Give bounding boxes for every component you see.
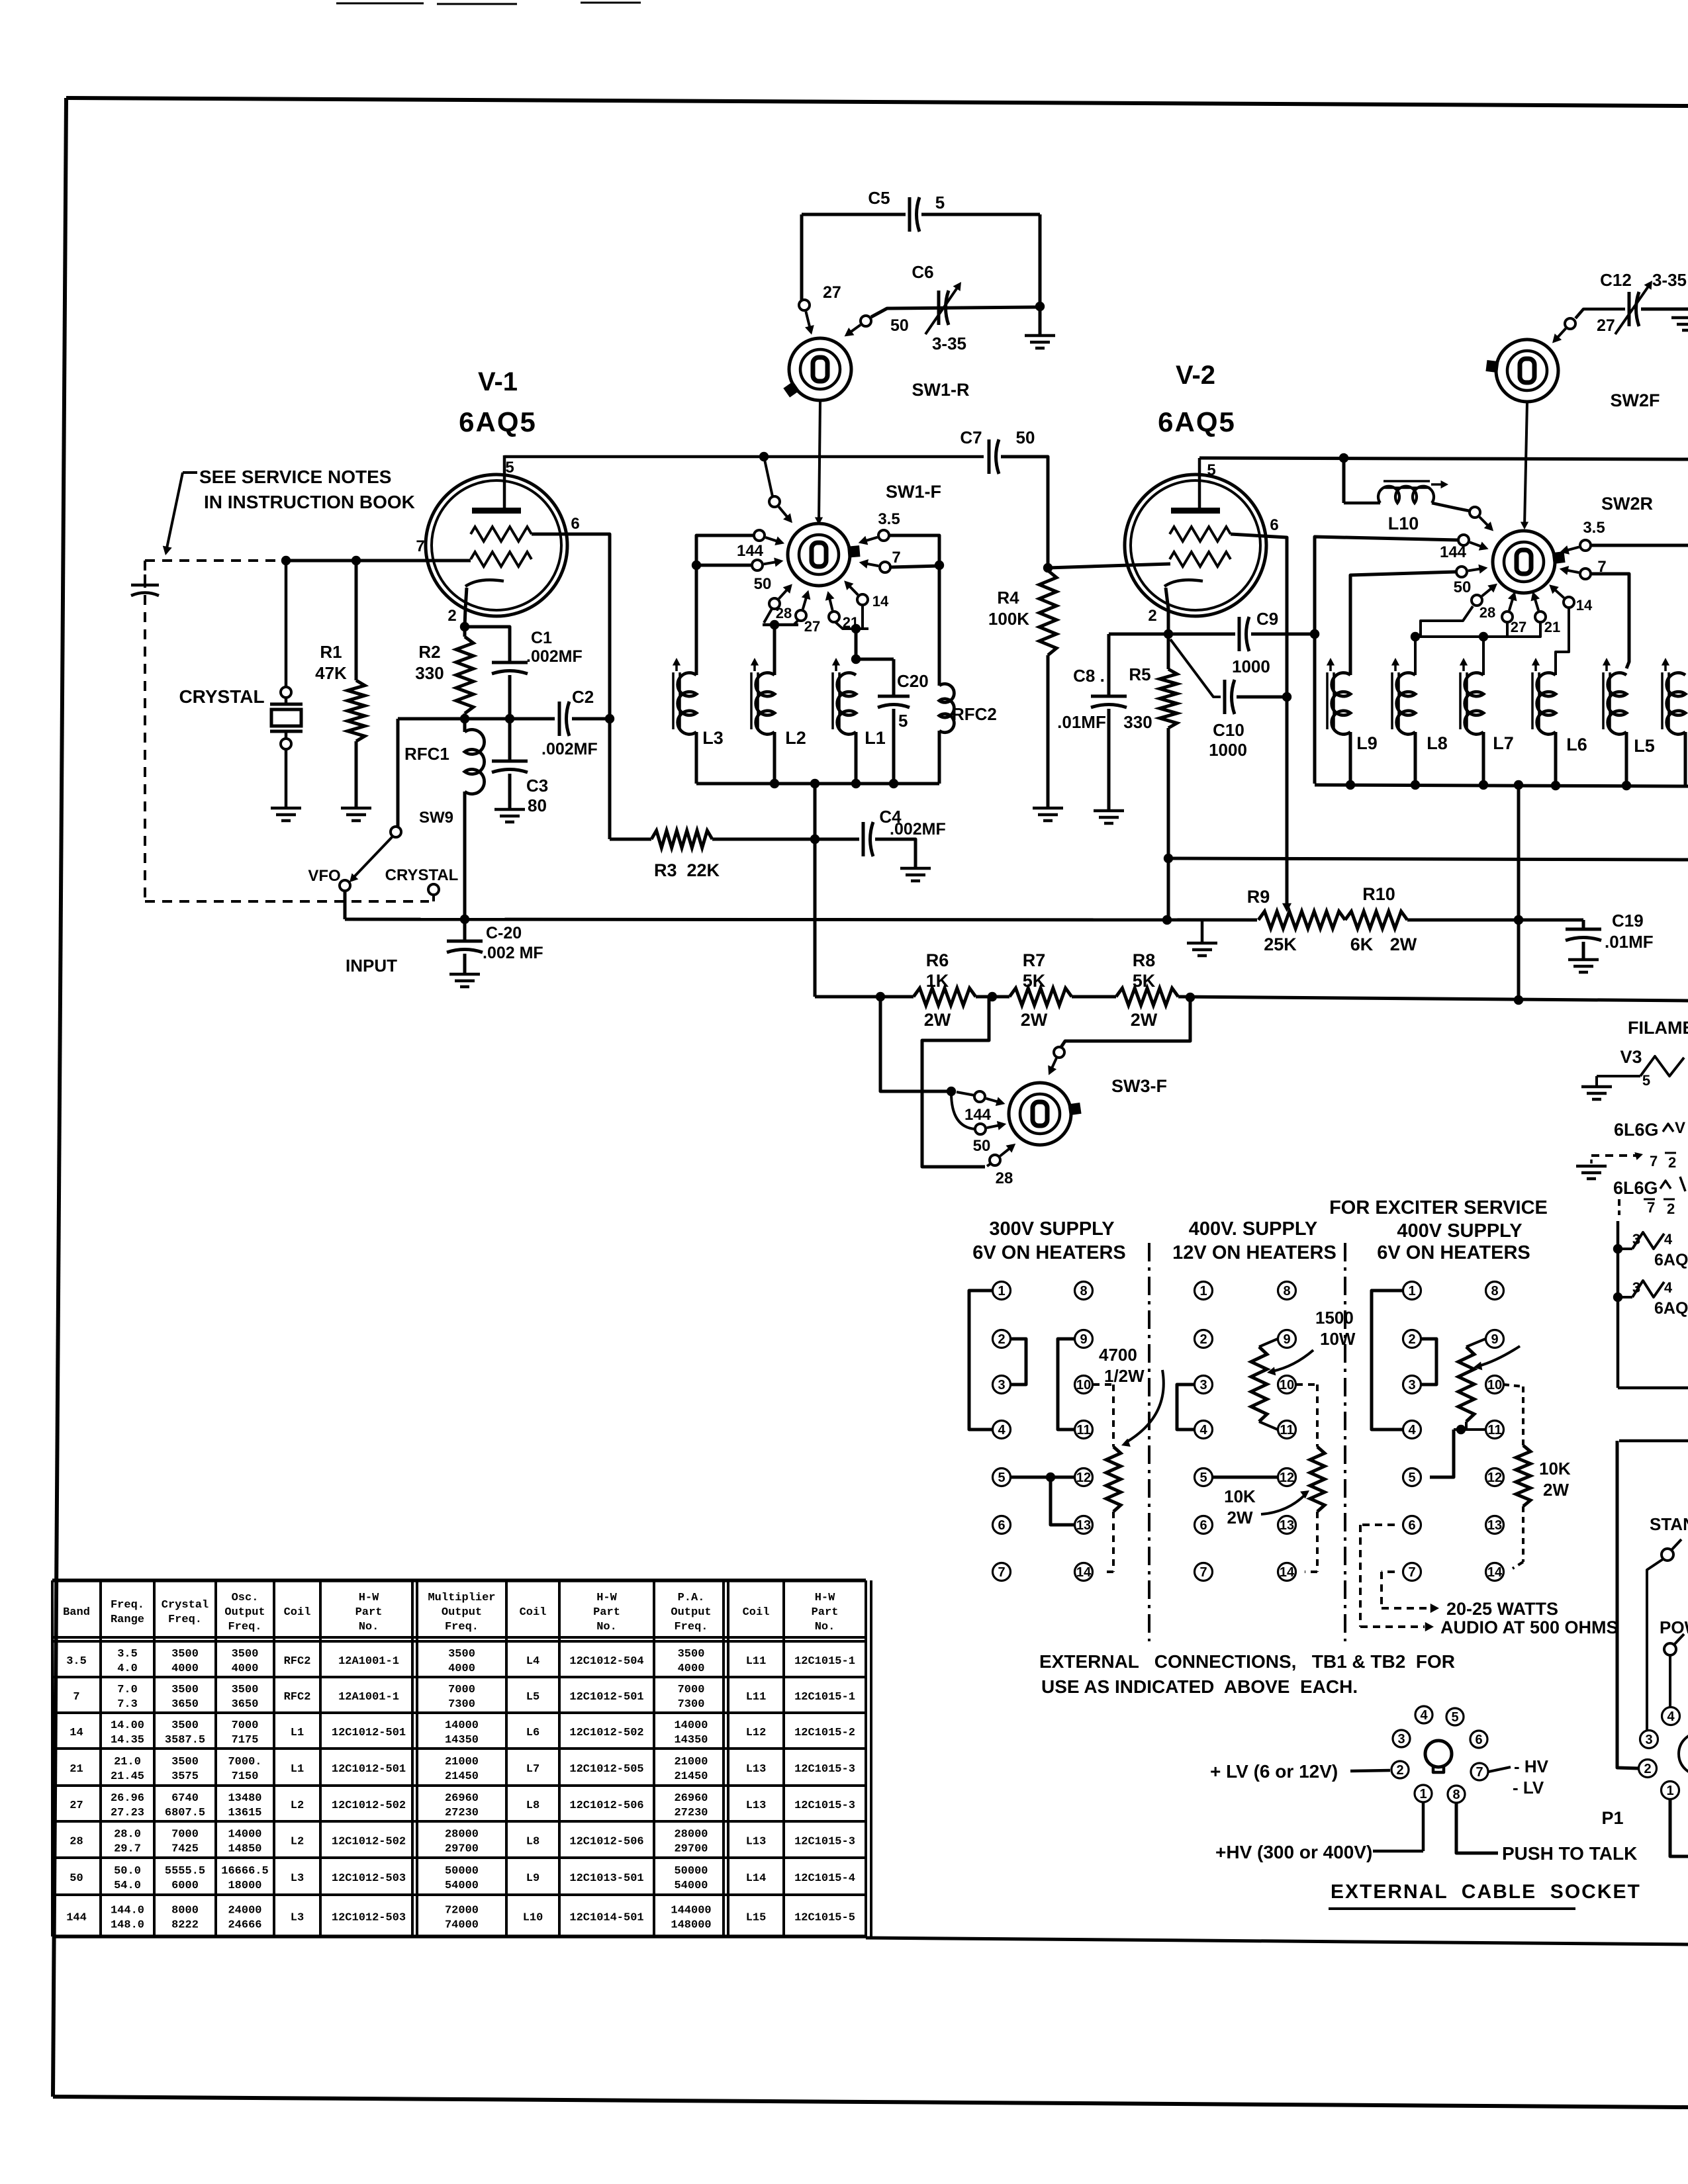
svg-text:21450: 21450 — [674, 1770, 708, 1783]
heater 6AQ5 b — [1618, 1279, 1673, 1297]
svg-text:12C1015-5: 12C1015-5 — [794, 1912, 855, 1925]
svg-text:12: 12 — [1487, 1471, 1502, 1485]
resistor R5 — [1160, 634, 1177, 920]
svg-text:STANDBY: STANDBY — [1650, 1514, 1688, 1534]
inductor RFC1 — [465, 719, 485, 919]
svg-text:RFC2: RFC2 — [284, 1655, 311, 1668]
svg-text:1K: 1K — [926, 971, 949, 991]
svg-text:11: 11 — [1076, 1423, 1090, 1437]
label 14 SW1-F — [872, 593, 889, 610]
svg-text:6AQ5: 6AQ5 — [459, 406, 537, 437]
label C2 value — [541, 740, 598, 758]
svg-text:2W: 2W — [1227, 1508, 1253, 1527]
resistor R9 pot — [1258, 911, 1345, 929]
svg-text:FOR EXCITER SERVICE: FOR EXCITER SERVICE — [1329, 1197, 1548, 1218]
dashed resistor TB2 — [1310, 1447, 1325, 1512]
svg-text:3650: 3650 — [232, 1698, 259, 1711]
socket pin 8 — [1448, 1786, 1465, 1803]
inductor L2 — [756, 673, 774, 784]
svg-text:3: 3 — [1632, 1231, 1640, 1248]
arrow contact 21 SW1-F — [825, 591, 835, 610]
svg-text:28000: 28000 — [674, 1829, 708, 1841]
label 21 SW2R — [1544, 619, 1560, 635]
label L5 — [1634, 736, 1655, 756]
svg-text:148000: 148000 — [671, 1919, 711, 1932]
node contact feed SW1-F — [769, 496, 780, 507]
label R6 1K — [924, 950, 951, 1030]
svg-text:8000: 8000 — [171, 1905, 199, 1917]
terminal TB2-400V pin 8 — [1278, 1282, 1296, 1300]
label L6 — [1566, 735, 1587, 754]
svg-text:EXTERNAL CONNECTIONS, TB1: EXTERNAL CONNECTIONS, TB1 & TB2 FOR — [1039, 1651, 1455, 1672]
svg-text:400V SUPPLY: 400V SUPPLY — [1397, 1220, 1522, 1242]
capacitor C5 — [802, 197, 1040, 232]
label C19 value — [1605, 932, 1654, 952]
node contact 144 SW2R — [1458, 535, 1469, 545]
svg-text:27: 27 — [70, 1799, 83, 1812]
node contact top SW3-F — [1054, 1047, 1064, 1058]
svg-text:SW9: SW9 — [419, 809, 453, 827]
svg-text:2: 2 — [1667, 1201, 1675, 1217]
wire rotor link SW1 — [815, 400, 823, 525]
svg-text:Coil: Coil — [743, 1606, 770, 1619]
label 4700 1/2W — [1099, 1345, 1145, 1386]
svg-text:50: 50 — [973, 1137, 991, 1155]
label SW2F — [1610, 390, 1660, 410]
svg-text:L9: L9 — [1356, 733, 1378, 753]
label 6AQ5 V1 — [459, 406, 537, 437]
wire 28 SW2R to L8 — [1421, 606, 1473, 637]
svg-text:C6: C6 — [912, 262, 933, 282]
svg-text:50: 50 — [754, 575, 772, 593]
rotary switch SW3-F — [1009, 1083, 1080, 1145]
svg-text:1000: 1000 — [1209, 740, 1247, 760]
svg-text:21450: 21450 — [445, 1770, 479, 1783]
svg-text:25K: 25K — [1264, 934, 1297, 954]
node contact 27 SW2F — [1565, 316, 1615, 335]
svg-text:11: 11 — [1487, 1423, 1501, 1437]
svg-text:6AQ5: 6AQ5 — [1654, 1251, 1688, 1269]
svg-text:L10: L10 — [523, 1912, 543, 1925]
svg-text:24666: 24666 — [228, 1919, 261, 1932]
svg-text:RFC1: RFC1 — [404, 744, 449, 764]
svg-text:RFC2: RFC2 — [284, 1691, 311, 1704]
node C9 bus — [1164, 629, 1319, 639]
svg-text:2: 2 — [1148, 607, 1156, 625]
label R1 47K — [315, 642, 347, 683]
svg-text:R9: R9 — [1247, 887, 1270, 907]
arrow contact 27 SW1-F — [802, 590, 811, 610]
wire pin7 V1 — [281, 556, 471, 565]
svg-text:9: 9 — [1283, 1332, 1290, 1347]
svg-text:C3: C3 — [526, 776, 548, 796]
svg-text:7: 7 — [1199, 1565, 1207, 1580]
svg-text:3-35: 3-35 — [1652, 270, 1687, 290]
label 1500 10W — [1315, 1308, 1356, 1349]
dashed TB1 10-14 — [1093, 1385, 1113, 1447]
svg-text:1: 1 — [1199, 1284, 1207, 1298]
svg-text:+HV (300 or 400V): +HV (300 or 400V) — [1215, 1842, 1372, 1862]
svg-text:4: 4 — [1420, 1708, 1428, 1723]
label C5 value — [935, 193, 945, 212]
svg-text:50.0: 50.0 — [114, 1865, 141, 1878]
node L1 top junction — [851, 655, 894, 664]
svg-text:9: 9 — [1080, 1332, 1087, 1347]
wire TB2 5-12 — [1213, 1476, 1278, 1479]
svg-text:74000: 74000 — [445, 1919, 479, 1932]
wire 6AQ5 heater chain — [1613, 1221, 1622, 1388]
svg-text:6: 6 — [1199, 1518, 1207, 1533]
svg-text:INPUT: INPUT — [346, 956, 397, 976]
label C5 — [868, 188, 890, 208]
svg-text:6V ON HEATERS: 6V ON HEATERS — [1377, 1242, 1530, 1263]
label C4 value — [890, 820, 946, 839]
svg-text:V-2: V-2 — [1176, 361, 1215, 390]
svg-text:R6: R6 — [926, 950, 949, 970]
wire 3.5 to RFC2 — [889, 535, 944, 686]
connector P1 pin3 — [1640, 1731, 1658, 1749]
node contact 14 SW2R — [1564, 597, 1574, 608]
tube V1 — [426, 475, 567, 616]
svg-text:6AQ5: 6AQ5 — [1158, 406, 1236, 437]
svg-text:14000: 14000 — [445, 1719, 479, 1732]
svg-text:Multiplier: Multiplier — [428, 1592, 495, 1604]
svg-text:L11: L11 — [746, 1655, 767, 1668]
svg-text:12C1012-501: 12C1012-501 — [332, 1763, 406, 1776]
svg-text:R2: R2 — [418, 642, 440, 662]
svg-text:50: 50 — [70, 1872, 83, 1885]
label C2 — [572, 687, 594, 707]
underline socket label — [1329, 1907, 1575, 1910]
svg-text:L7: L7 — [1493, 733, 1514, 753]
svg-text:2W: 2W — [1131, 1010, 1158, 1030]
wire pin7 to HV — [1489, 1767, 1511, 1772]
svg-text:12C1014-501: 12C1014-501 — [569, 1912, 643, 1925]
svg-text:L7: L7 — [526, 1763, 539, 1776]
arrow 144 SW3-F — [986, 1097, 1006, 1107]
inductor L8 — [1397, 673, 1415, 785]
svg-text:26960: 26960 — [445, 1792, 479, 1805]
pin 2 label V1 — [447, 607, 456, 625]
svg-text:1500: 1500 — [1315, 1308, 1354, 1328]
svg-text:50: 50 — [1454, 578, 1472, 596]
label 6AQ5 a — [1654, 1251, 1688, 1269]
terminal TB-EXC pin 3 — [1403, 1376, 1421, 1394]
svg-text:4700: 4700 — [1099, 1345, 1137, 1365]
svg-text:26.96: 26.96 — [111, 1792, 144, 1805]
pin 2 label V2 — [1148, 607, 1156, 625]
terminal TB-EXC pin 13 — [1486, 1516, 1504, 1534]
svg-text:6807.5: 6807.5 — [165, 1807, 205, 1819]
label POWER — [1660, 1617, 1688, 1637]
svg-text:C1: C1 — [531, 629, 552, 647]
svg-text:50: 50 — [1016, 428, 1035, 447]
svg-text:.002 MF: .002 MF — [483, 944, 543, 962]
svg-text:1: 1 — [998, 1284, 1005, 1298]
arrow contact 50 SW2R — [1468, 565, 1488, 574]
svg-text:.002MF: .002MF — [890, 820, 946, 839]
svg-text:148.0: 148.0 — [111, 1919, 144, 1932]
label SW3-F — [1111, 1076, 1167, 1096]
inductor RFC2 — [939, 684, 954, 784]
label 28 SW2R — [1479, 604, 1495, 621]
dashed capacitor on box edge — [131, 574, 159, 606]
svg-text:Crystal: Crystal — [162, 1599, 209, 1612]
svg-text:7: 7 — [892, 549, 900, 567]
wire coil bus to R6 bus — [810, 784, 820, 997]
dashed TB2 10-14 — [1296, 1385, 1317, 1447]
terminal TB2-400V pin 5 — [1195, 1469, 1213, 1486]
ground R4 — [1033, 808, 1063, 821]
terminal TB-EXC pin 1 — [1403, 1282, 1421, 1300]
svg-text:27: 27 — [823, 283, 841, 302]
svg-text:L1: L1 — [291, 1763, 304, 1776]
svg-text:8: 8 — [1491, 1284, 1498, 1298]
terminal TB2-400V pin 3 — [1195, 1376, 1213, 1394]
dashed resistor TBX — [1516, 1445, 1530, 1506]
label R2 330 — [415, 642, 444, 683]
svg-text:7: 7 — [1408, 1565, 1415, 1580]
resistor R1 — [348, 561, 365, 808]
svg-text:5: 5 — [1642, 1072, 1650, 1089]
slug L10 — [1383, 480, 1448, 488]
wire 144 to L3 — [692, 535, 754, 675]
svg-text:14: 14 — [70, 1727, 83, 1739]
label 6L6G 2 — [1613, 1177, 1685, 1198]
svg-text:3587.5: 3587.5 — [165, 1734, 205, 1747]
svg-text:47K: 47K — [315, 663, 347, 683]
svg-text:5: 5 — [935, 193, 945, 212]
wire cathode diag to C10 — [1170, 639, 1221, 697]
dashed TB2 to 14 — [1305, 1512, 1317, 1572]
svg-text:7150: 7150 — [232, 1770, 259, 1783]
svg-text:3.5: 3.5 — [878, 510, 900, 528]
label 3.5 SW1-F — [878, 510, 900, 528]
svg-text:1000: 1000 — [1232, 657, 1270, 676]
node contact 27 SW1-R — [799, 283, 841, 310]
ground input bus — [1187, 920, 1217, 956]
wire standby to pin3 — [1647, 1559, 1663, 1730]
svg-text:4: 4 — [1408, 1423, 1416, 1437]
label C6 — [912, 262, 933, 282]
svg-text:3-35: 3-35 — [932, 334, 966, 353]
svg-text:10: 10 — [1487, 1378, 1502, 1392]
wire R6 junction to SW3 contacts — [880, 997, 956, 1096]
ground R1 — [341, 808, 371, 821]
svg-text:6000: 6000 — [171, 1880, 199, 1892]
ground C4 — [900, 868, 931, 881]
connector P1 pin4 — [1662, 1707, 1680, 1725]
svg-text:Part: Part — [812, 1606, 839, 1619]
svg-text:L9: L9 — [526, 1872, 539, 1885]
label R10 — [1362, 884, 1395, 904]
svg-text:27230: 27230 — [445, 1807, 479, 1819]
label 28 SW3-F — [996, 1169, 1013, 1187]
label L9 — [1356, 733, 1378, 753]
svg-text:14000: 14000 — [674, 1719, 708, 1732]
svg-text:3: 3 — [1645, 1733, 1652, 1747]
node contact 14 SW1-F — [857, 594, 868, 605]
label 28 SW1-F — [776, 605, 792, 621]
svg-text:V: V — [1675, 1119, 1685, 1137]
label V3 pin5 — [1642, 1072, 1650, 1089]
socket pin 4 — [1415, 1706, 1432, 1723]
wire 7 SW2R to L5 — [1591, 574, 1629, 668]
label C9 value — [1232, 657, 1270, 676]
arrow contact 27 SW2R — [1508, 592, 1517, 611]
label R5 — [1129, 664, 1150, 684]
wire pin8 to push-to-talk — [1456, 1803, 1498, 1853]
terminal TB2-400V pin 1 — [1195, 1282, 1213, 1300]
wire pin6 V2 down — [1231, 534, 1291, 905]
svg-text:C2: C2 — [572, 687, 594, 707]
label VFO — [308, 867, 340, 885]
svg-text:5: 5 — [998, 1471, 1005, 1485]
label 300V SUPPLY — [989, 1218, 1114, 1240]
svg-text:10K: 10K — [1539, 1459, 1571, 1479]
svg-text:9: 9 — [1491, 1332, 1498, 1347]
capacitor C19 — [1566, 920, 1601, 960]
label R5 value — [1123, 712, 1152, 732]
svg-text:144: 144 — [964, 1106, 992, 1124]
svg-text:12C1012-502: 12C1012-502 — [332, 1836, 406, 1848]
svg-text:Band: Band — [63, 1606, 90, 1619]
label C6 value — [932, 334, 966, 353]
svg-text:4: 4 — [1664, 1279, 1673, 1296]
wire cathode V1 — [465, 588, 467, 627]
svg-text:C12: C12 — [1600, 270, 1632, 290]
wire 7 to RFC2 — [890, 566, 939, 567]
terminal TB1-300V pin 8 — [1075, 1282, 1093, 1300]
svg-text:12A1001-1: 12A1001-1 — [338, 1691, 399, 1704]
svg-text:L12: L12 — [746, 1727, 767, 1739]
svg-text:5K: 5K — [1023, 971, 1046, 991]
ground C12 — [1671, 318, 1688, 330]
terminal TB-EXC pin 11 — [1486, 1421, 1504, 1439]
svg-text:14: 14 — [872, 593, 889, 610]
resistor TB2 9-11 — [1251, 1339, 1278, 1430]
svg-text:2: 2 — [998, 1332, 1005, 1347]
wire coil-bus drop right — [1514, 785, 1523, 1000]
label R3 22K — [654, 860, 720, 880]
svg-text:6K: 6K — [1350, 934, 1374, 954]
label L8 — [1427, 733, 1448, 753]
svg-text:5555.5: 5555.5 — [165, 1865, 205, 1878]
svg-text:7: 7 — [416, 537, 424, 555]
label C9 — [1256, 609, 1278, 629]
svg-text:27: 27 — [1597, 316, 1615, 335]
label 10K 2W TB2 — [1224, 1486, 1256, 1527]
svg-text:12V ON HEATERS: 12V ON HEATERS — [1172, 1242, 1336, 1263]
slug L2 — [751, 658, 759, 729]
resistor TBX 9-11 — [1454, 1339, 1485, 1434]
label 144 SW2R — [1440, 543, 1467, 561]
svg-text:28: 28 — [996, 1169, 1013, 1187]
terminal TB-EXC pin 14 — [1486, 1563, 1504, 1581]
wire plate stem V1 — [503, 455, 506, 510]
wire 50 SW2R to L9 — [1350, 572, 1456, 675]
label 144 SW3-F — [964, 1106, 992, 1124]
svg-text:2W: 2W — [1543, 1480, 1569, 1500]
label R9 — [1247, 887, 1270, 907]
svg-text:12: 12 — [1280, 1471, 1294, 1485]
svg-text:13: 13 — [1280, 1518, 1294, 1533]
svg-text:4000: 4000 — [448, 1662, 475, 1675]
svg-text:3500: 3500 — [171, 1756, 199, 1768]
svg-text:8: 8 — [1452, 1788, 1460, 1802]
svg-text:14: 14 — [1280, 1565, 1295, 1580]
wire R7-R8 — [1072, 995, 1116, 999]
inductor L3 — [678, 673, 696, 784]
svg-text:4: 4 — [998, 1423, 1006, 1437]
wire TBX 5 up — [1430, 1430, 1454, 1477]
label C8 value — [1057, 712, 1106, 732]
node contact 50 SW1-R — [861, 316, 871, 326]
svg-text:L3: L3 — [291, 1872, 304, 1885]
label L2 — [785, 728, 806, 748]
wire LV to pin2 — [1350, 1770, 1390, 1771]
slug L1 — [832, 658, 840, 729]
dashed service-notes box — [145, 561, 429, 901]
node contact 28 SW1-F — [769, 598, 780, 609]
pin 5 label V1 — [505, 459, 514, 477]
svg-text:No.: No. — [596, 1621, 617, 1633]
wire 50 to L3 — [696, 564, 752, 567]
svg-text:3: 3 — [998, 1378, 1005, 1392]
terminal TB2-400V pin 2 — [1195, 1330, 1213, 1348]
node contact 21 SW2R — [1535, 612, 1546, 622]
wire cathode V2 — [1166, 588, 1168, 634]
terminal TB-EXC pin 5 — [1403, 1469, 1421, 1486]
label 144 SW1-F — [737, 542, 764, 560]
wire pin1 to +HV — [1373, 1803, 1423, 1851]
table row 7 — [73, 1684, 855, 1711]
svg-text:12C1012-506: 12C1012-506 — [569, 1799, 643, 1812]
svg-text:27: 27 — [1511, 619, 1526, 635]
svg-text:3.5: 3.5 — [66, 1655, 87, 1668]
svg-text:400V. SUPPLY: 400V. SUPPLY — [1189, 1218, 1318, 1240]
svg-text:2W: 2W — [1390, 934, 1417, 954]
label P1 — [1601, 1808, 1623, 1828]
node top bus A — [504, 452, 984, 461]
wire feed to SW1-F — [764, 457, 773, 496]
svg-text:14.00: 14.00 — [111, 1719, 144, 1732]
wire R7 junction to contact 28 — [922, 997, 989, 1167]
svg-text:L10: L10 — [1388, 514, 1419, 533]
wire heater chain bottom — [1618, 1387, 1688, 1390]
svg-text:SW1-R: SW1-R — [912, 380, 970, 400]
svg-text:+ LV (6 or 12V): + LV (6 or 12V) — [1210, 1761, 1338, 1782]
svg-text:7000: 7000 — [171, 1829, 199, 1841]
arrow 4700 — [1121, 1370, 1164, 1447]
label SEE SERVICE NOTES — [199, 467, 415, 512]
svg-text:3500: 3500 — [232, 1648, 259, 1661]
capacitor C8 — [1091, 634, 1127, 811]
svg-text:6: 6 — [571, 515, 579, 533]
svg-text:4000: 4000 — [678, 1662, 705, 1675]
svg-text:3: 3 — [1199, 1378, 1207, 1392]
svg-text:L2: L2 — [785, 728, 806, 748]
svg-text:L13: L13 — [746, 1836, 767, 1848]
capacitor C7 — [989, 439, 999, 474]
svg-text:2: 2 — [1408, 1332, 1415, 1347]
dashed TBX to 14 — [1513, 1506, 1523, 1569]
svg-text:28: 28 — [776, 605, 792, 621]
svg-text:7000: 7000 — [448, 1684, 475, 1696]
terminal TB2-400V pin 12 — [1278, 1469, 1296, 1486]
wire TBX 2-3 — [1421, 1339, 1436, 1385]
svg-text:12C1015-3: 12C1015-3 — [794, 1836, 855, 1848]
